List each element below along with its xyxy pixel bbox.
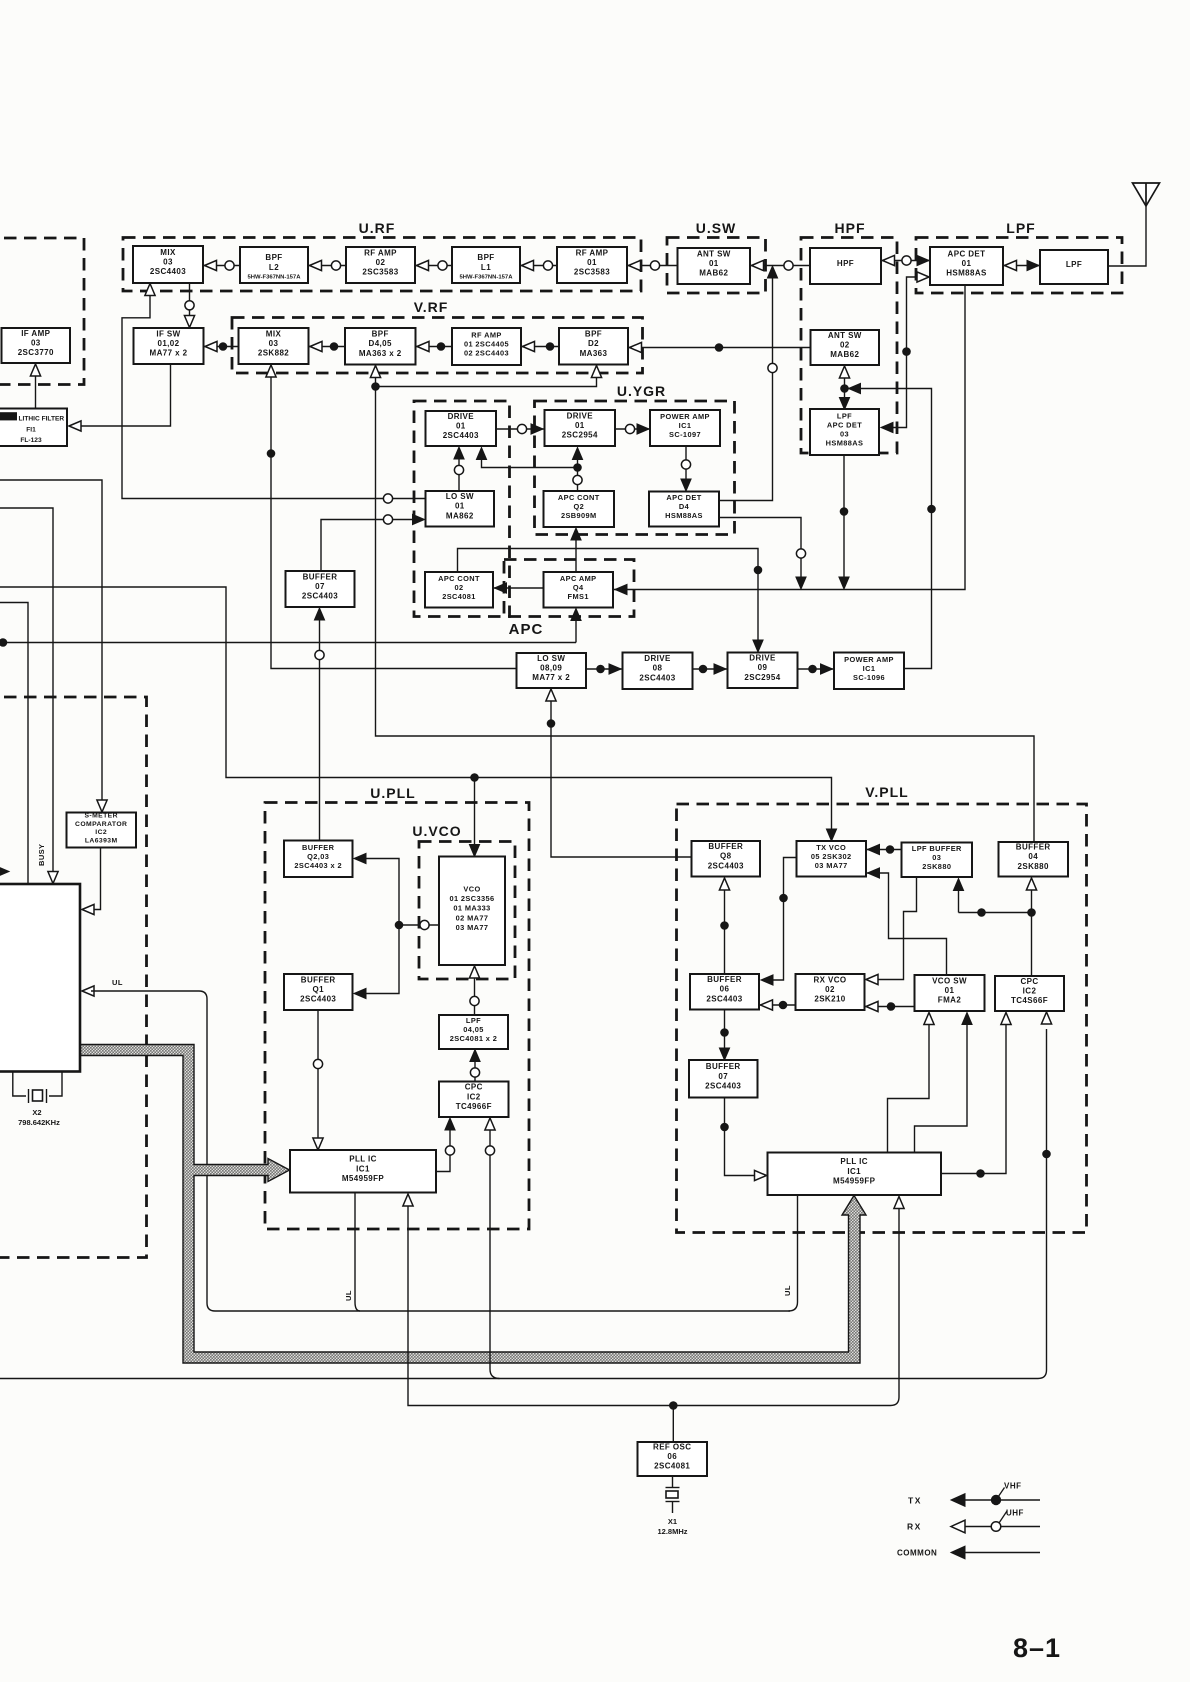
svg-text:UL: UL [112, 978, 123, 987]
wire LO SW 08,09 to DRIVE 08 with VHF marker and TX arrow [586, 668, 623, 670]
block PLL IC IC1 M54959FP U.PLL [290, 1150, 436, 1193]
wire RX VCO output to BUFFER 06 with RX arrow and VHF marker [759, 1004, 796, 1006]
block DRIVE 01 2SC2954 [545, 410, 616, 446]
wire BUFFER Q1 output to PLL IC U.PLL with UHF marker and arrow [317, 1010, 319, 1138]
dashed group box U.SW with label [667, 238, 766, 294]
block VCO SW 01 FMA2 [915, 975, 985, 1011]
wire U.VCO VCO output to BUFFER Q2,03 and BUFFER Q1 with arrows, junction and UHF marker [362, 859, 399, 994]
dashed group box V.RF with label [232, 318, 643, 374]
svg-text:12.8MHz: 12.8MHz [657, 1527, 687, 1536]
block BPF D4,05 MA363 x 2 [345, 328, 416, 365]
block LPF 04,05 2SC4081 x 2 [439, 1015, 508, 1049]
antenna symbol [1133, 183, 1160, 206]
wire APC DET D4 output down to APC bus with UHF marker and arrow [720, 518, 802, 589]
svg-text:8–1: 8–1 [1013, 1633, 1061, 1663]
block RF AMP 01 2SC3583 [557, 247, 627, 283]
block CPC IC2 TC4S66F V.PLL [995, 976, 1064, 1011]
wire stub into CPU top left corner [0, 866, 9, 876]
wire VCO SW right bottom to PLL IC V.PLL top with TX arrow [915, 1024, 968, 1153]
block DRIVE 01 2SC4403 [426, 411, 497, 446]
svg-text:U.SW: U.SW [696, 220, 737, 236]
block CPC IC2 TC4966F U.PLL [439, 1082, 509, 1118]
svg-text:U.RF: U.RF [359, 220, 396, 236]
wire UL branch from U.PLL PLL IC bottom [355, 1193, 360, 1312]
dashed group box U.YGR left section [414, 401, 510, 617]
wire TX UHF from APC DET D4 up to ANT SW 01 junction with UHF marker [720, 272, 773, 501]
wire MIX U.RF to IF SW vertical with UHF marker and RX arrow [189, 284, 191, 328]
block LPF BUFFER 03 2SK880 [902, 843, 973, 878]
wire BUSY from CPU edge down to CPU box with arrow [0, 508, 53, 873]
wire MONOLITHIC FILTER input from IF SW with RX arrow [78, 364, 171, 426]
block MONOLITHIC FILTER FI1 FL-123 (cut at page edge) [0, 409, 67, 447]
wire LPF BUFFER 03 to RX VCO upper input with RX arrow [875, 877, 917, 980]
wire CPC V.PLL and BUFFER 04 to LPF BUFFER 03 with arrows, junction and VHF marker [958, 890, 960, 913]
crystal X2 798.642KHz with leads [13, 1072, 26, 1097]
block POWER AMP IC1 SC-1097 [650, 410, 720, 446]
svg-text:798.642KHz: 798.642KHz [18, 1118, 60, 1127]
wire LPF 04,05 to U.VCO VCO bottom with arrow and UHF marker [474, 975, 476, 1015]
wire APC AMP to APC CONT 02 with TX arrow [493, 587, 544, 589]
svg-text:LPF: LPF [1006, 220, 1035, 236]
block POWER AMP IC1 SC-1096 [834, 653, 904, 690]
wire APC AMP output to APC CONT Q2 bottom with arrow [575, 539, 577, 572]
svg-text:V.PLL: V.PLL [865, 784, 908, 800]
block BPF L1 5HW-F367NN-157A [452, 247, 520, 283]
svg-text:BUSY: BUSY [37, 844, 46, 866]
svg-text:UHF: UHF [1006, 1509, 1024, 1518]
wire V.RF chain BPF D2 to RF AMP with RX arrow and VHF marker [521, 346, 559, 348]
svg-text:RX: RX [907, 1522, 922, 1532]
wire U.RF chain RF AMP 02 to BPF L2 with RX arrow and UHF marker [308, 265, 346, 267]
block LPF APC DET 03 HSM88AS [810, 409, 879, 455]
dashed group box APC with label [504, 560, 634, 617]
wire ANT SW 02 junction to LPF APC DET 03 and POWER AMP SC-1096 with arrows and VHF markers [844, 375, 846, 399]
wire BUFFER 06 to BUFFER 07 V.PLL with VHF marker and arrow [724, 1010, 726, 1050]
wire LO SW 01 output to MIX U.RF bottom with injection arrow and UHF marker [122, 293, 426, 499]
wire reference line from REF OSC to both PLL ICs with junction dot and arrows [408, 1206, 899, 1406]
wire BUFFER Q2,03 to BUFFER 07 with TX arrow and UHF marker [319, 619, 321, 841]
svg-text:VHF: VHF [1004, 1482, 1022, 1491]
wire VCO SW left bottom to PLL IC V.PLL top with arrow [888, 1024, 930, 1153]
block APC CONT Q2 2SB909M [544, 491, 615, 527]
wire from page edge into CPU box top [0, 603, 28, 884]
block REF OSC 06 2SC4081 [638, 1442, 708, 1476]
svg-text:LPF: LPF [1066, 260, 1082, 269]
wire LPF BUFFER 03 to TX VCO with TX arrow and VHF marker [866, 849, 902, 851]
svg-text:COMMON: COMMON [897, 1549, 937, 1558]
wire ANT SW 02 to BPF D2 with RX arrow and VHF marker [628, 347, 811, 349]
wire UL unlock from PLL ICs to CPU with RX arrow [82, 986, 94, 996]
wire DRIVE 01 2SC4403 to DRIVE 01 2SC2954 with TX arrow and UHF marker [496, 428, 545, 430]
block TX VCO 05 2SK302 03 MA77 [797, 841, 867, 877]
wire APC bus from APC DET 01 to APC AMP with RX arrow [614, 285, 965, 590]
block PLL IC IC1 M54959FP V.PLL [768, 1153, 942, 1196]
dashed group box U.PLL with label [265, 803, 529, 1230]
block ANT SW 01 MAB62 [678, 248, 751, 284]
block BUFFER 06 2SC4403 [690, 974, 759, 1010]
svg-text:X2: X2 [32, 1108, 41, 1117]
svg-text:HPF: HPF [835, 220, 866, 236]
block APC CONT 02 2SC4081 [425, 572, 493, 608]
block U.VCO VCO 01 2SC3356 01 MA333 02 MA77 03 MA77 [439, 857, 505, 966]
svg-text:FI1: FI1 [26, 427, 36, 434]
wire IF SW to MIX 2SK882 with RX arrow and VHF marker [204, 346, 239, 348]
svg-text:TX VCO05 2SK30203 MA77: TX VCO05 2SK30203 MA77 [811, 843, 852, 870]
wire CPC IC2 U.PLL right input from common CPC line with arrow and UHF marker [490, 1130, 500, 1379]
svg-text:TX: TX [908, 1496, 922, 1506]
block BPF D2 MA363 [559, 328, 628, 365]
wire APC line from CPU to APC AMP bottom with junction dot and arrow [0, 642, 576, 644]
svg-text:UL: UL [783, 1285, 792, 1296]
wire V.RF chain RF AMP to BPF D4,05 with RX arrow and VHF marker [416, 346, 453, 348]
wire POWER AMP SC-1097 to APC DET D4 with UHF marker and arrow [685, 446, 687, 480]
svg-text:UL: UL [344, 1290, 353, 1301]
block MIX 03 2SK882 V.RF [239, 328, 309, 364]
wire UL branch from V.PLL PLL IC bottom [789, 1194, 798, 1312]
block S-METER COMPARATOR IC2 LA6393M [67, 813, 137, 848]
block MIX 03 2SC4403 U.RF [133, 246, 203, 283]
block CPU control unit (cut at page edge) [0, 884, 80, 1072]
block APC AMP Q4 FMS1 [544, 572, 614, 608]
block APC DET D4 HSM88AS [649, 492, 719, 527]
dashed group box CPU section (cut at page edge) [0, 697, 147, 1258]
dashed group box U.RF with label [123, 238, 641, 292]
wire DRIVE 08 to DRIVE 09 with VHF marker and TX arrow [693, 668, 728, 670]
wire BUFFER Q8 to BUFFER 06 with arrow and VHF marker [724, 889, 726, 974]
svg-text:U.PLL: U.PLL [370, 785, 415, 801]
wire VCO control from CPU to U.VCO and TX VCO with junction and arrows [0, 587, 832, 831]
wire LO SW 01 to DRIVE 01 2SC4403 with arrow and UHF marker [458, 458, 460, 491]
wire APC CONT Q2 output to DRIVE stages with arrows, junction and UHF marker [577, 458, 579, 491]
svg-text:X1: X1 [668, 1517, 677, 1526]
wire HPF to APC DET 01 upper with arrows and UHF marker [881, 260, 930, 262]
wire BUFFER 07 output to LO SW 01 with TX arrow and UHF marker [321, 520, 416, 572]
svg-text:FL-123: FL-123 [20, 437, 42, 444]
wire U.RF chain RF AMP 01 to BPF L1 with RX arrow and UHF marker [520, 265, 557, 267]
svg-text:5HW-F367NN-157A: 5HW-F367NN-157A [460, 275, 514, 281]
block LPF antenna filter [1040, 250, 1108, 284]
block IF AMP 03 2SC3770 (cut at page edge) [2, 328, 71, 363]
wire DRIVE 01 2SC2954 to POWER AMP SC-1097 with TX arrow and UHF marker [615, 428, 650, 430]
svg-text:U.YGR: U.YGR [617, 383, 666, 399]
block HPF [810, 248, 881, 284]
wire U.RF chain BPF L1 to RF AMP 02 with RX arrow and UHF marker [415, 265, 452, 267]
dashed group box around IF AMP (cut at page edge) [0, 238, 84, 385]
block RF AMP 02 2SC3583 [346, 247, 415, 283]
svg-text:5HW-F367NN-157A: 5HW-F367NN-157A [248, 275, 302, 281]
wire IF AMP input from MONOLITHIC FILTER with RX arrow [35, 374, 37, 409]
svg-text:U.VCO: U.VCO [412, 823, 461, 839]
wire U.RF chain BPF L2 to MIX with RX arrow and UHF marker [203, 265, 240, 267]
wire CPC IC2 V.PLL right input arrow and VHF marker [1041, 1012, 1051, 1024]
shaded control bus from CPU to U.PLL and V.PLL PLL ICs with hollow arrows [79, 1045, 866, 1364]
block RF AMP 01 2SC4405 02 2SC4403 [452, 328, 521, 365]
block DRIVE 08 2SC4403 [623, 653, 693, 690]
wire VCO SW to RX VCO lower input with RX arrow and VHF marker [865, 1006, 915, 1008]
svg-text:HPF: HPF [837, 259, 854, 268]
crystal X1 12.8MHz with leads [672, 1476, 674, 1487]
wire PLL IC U.PLL to CPC IC2 left input with arrow and UHF marker [436, 1130, 450, 1172]
wire VCO SW to TX VCO lower input with TX arrow [866, 873, 947, 975]
block ANT SW 02 MAB62 [811, 330, 880, 365]
wire MIX 2SK882 LO injection from LO SW 08,09 with arrow and VHF marker [271, 375, 517, 669]
wire BUFFER 07 V.PLL to PLL IC V.PLL with VHF marker and arrow [725, 1098, 759, 1176]
wire CPC V.PLL to PLL IC right edge with arrow and VHF marker [941, 1024, 1006, 1174]
wire APC DET 01 to LPF with arrows [1003, 265, 1040, 267]
wire REF OSC to reference line [672, 1406, 674, 1443]
svg-text:APC: APC [509, 621, 544, 638]
wire from CPU to S-METER COMPARATOR with RX arrow [0, 480, 102, 802]
block LO SW 01 MA862 [426, 491, 495, 527]
wire BUFFER Q8 output to LO SW 08,09 with arrow and VHF marker [551, 698, 692, 857]
svg-text:LITHIC FILTER: LITHIC FILTER [19, 416, 65, 423]
wire APC DET 01 lower input from LPF APC DET 03 via vertical riser with VHF marker [888, 277, 929, 428]
block DRIVE 09 2SC2954 [728, 653, 798, 689]
svg-text:V.RF: V.RF [414, 299, 449, 315]
dashed group box U.YGR with label [535, 401, 735, 535]
wire LPF to antenna [1108, 205, 1146, 266]
wire TX VCO output to BUFFER 06 with TX arrow and VHF marker [770, 858, 797, 981]
wire DRIVE 09 to POWER AMP SC-1096 with VHF marker and TX arrow [798, 668, 835, 670]
dashed group box LPF with label [916, 238, 1122, 294]
wire CPC IC2 to LPF 04,05 with arrow and UHF marker [474, 1060, 476, 1082]
wire common CPC control line across page bottom [0, 1029, 1047, 1379]
wire V.RF chain BPF D4,05 to MIX 2SK882 with RX arrow and VHF marker [309, 346, 346, 348]
wire S-METER COMPARATOR output into CPU with RX arrow [91, 848, 101, 910]
block BUFFER Q8 2SC4403 [692, 841, 761, 877]
block BUFFER Q1 2SC4403 [284, 974, 353, 1010]
block RX VCO 02 2SK210 [796, 974, 865, 1010]
block APC DET 01 HSM88AS [930, 247, 1003, 285]
block BPF L2 5HW-F367NN-157A [240, 247, 308, 283]
dashed group box HPF with label [801, 238, 897, 454]
wire ANT SW 01 to HPF with RX arrow, TX junction arrow and UHF marker [750, 265, 810, 267]
block BUFFER 04 2SK880 [999, 842, 1069, 877]
block BUFFER Q2,03 2SC4403 x 2 [284, 841, 353, 878]
block BUFFER 07 2SC4403 V.PLL [689, 1060, 758, 1098]
block BUFFER 07 2SC4403 LO buffer [286, 571, 355, 607]
block LO SW 08,09 MA77 x 2 [517, 653, 587, 688]
wire APC CONT 02 output to DRIVE 09 with VHF marker and arrow [458, 549, 759, 641]
wire BPF D4,05 and BPF D2 injection from BUFFER 04 V.PLL with arrows and junction [376, 375, 1035, 842]
wire LPF APC DET 03 down to APC bus with VHF marker and arrow [843, 455, 845, 588]
dashed group box U.VCO with label [419, 842, 515, 980]
wire ANT SW 01 to RF AMP 01 with RX arrow and UHF marker [627, 265, 678, 267]
dashed group box V.PLL with label [677, 804, 1087, 1233]
block IF SW 01,02 MA77 x 2 [134, 328, 204, 364]
